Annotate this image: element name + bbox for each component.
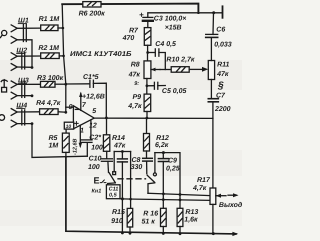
svg-text:R10 2,7к: R10 2,7к <box>166 56 195 63</box>
svg-text:47к: 47к <box>216 71 229 78</box>
switch glyph after E <box>100 180 107 183</box>
output right vertical wire <box>212 118 214 188</box>
switch Kn1 pole 1 <box>108 152 116 185</box>
svg-text:47к: 47к <box>128 71 141 78</box>
svg-text:330: 330 <box>131 164 143 171</box>
node dot lineB R13 <box>179 199 182 202</box>
svg-text:R2 1М: R2 1М <box>38 45 59 52</box>
svg-text:E: E <box>94 176 100 186</box>
svg-text:5: 5 <box>92 108 96 115</box>
resistor R14 <box>103 118 109 158</box>
pickup symbol <box>1 80 7 92</box>
resistor R12 <box>144 118 150 158</box>
pin 10 box <box>64 122 73 129</box>
pin 1 power arrow -12.6V <box>79 125 82 148</box>
resistor R16 <box>161 208 167 233</box>
potentiometer R8 <box>144 61 160 79</box>
capacitor C10 <box>101 159 112 173</box>
pin 9 stub wire <box>66 106 74 108</box>
mech link dashes <box>118 178 146 180</box>
svg-text:9: 9 <box>69 104 73 111</box>
node dot R8 bottom <box>146 84 149 87</box>
svg-text:С2*: С2* <box>89 134 101 141</box>
svg-text:R14: R14 <box>112 135 125 142</box>
resistor R10 <box>171 67 208 73</box>
wire R8 wiper junction to R10 <box>160 69 171 71</box>
bar wire above C-row right <box>155 153 180 209</box>
node dot bar2 C9 <box>162 151 165 154</box>
terminal bar top right <box>222 6 224 17</box>
svg-text:1,6к: 1,6к <box>184 216 198 223</box>
microphone symbol <box>0 30 6 37</box>
wire to C4 <box>148 52 155 54</box>
svg-text:R12: R12 <box>156 135 169 142</box>
wire line B to R17 <box>122 199 210 201</box>
svg-text:R7: R7 <box>129 28 139 35</box>
connector Sh2 <box>11 53 41 71</box>
resistor R7 <box>144 28 151 53</box>
capacitor C2 <box>81 140 92 156</box>
svg-text:2200: 2200 <box>214 106 231 113</box>
svg-text:Выход: Выход <box>219 201 242 209</box>
resistor R2 <box>41 53 64 59</box>
node dot lineA C9 <box>162 193 165 196</box>
resistor R9 <box>144 86 151 118</box>
node dot lineA riser <box>179 193 182 196</box>
svg-text:-12,6В: -12,6В <box>73 138 79 155</box>
svg-text:R4 4,7к: R4 4,7к <box>36 100 61 107</box>
node dot lineB R15 <box>129 198 132 201</box>
svg-text:С10: С10 <box>89 156 102 163</box>
svg-text:4,7к: 4,7к <box>127 103 142 110</box>
svg-text:470: 470 <box>122 35 135 42</box>
svg-text:С7: С7 <box>216 92 226 99</box>
svg-text:R6 200к: R6 200к <box>79 11 106 18</box>
connector Sh4 <box>11 109 39 127</box>
wire to C5 <box>147 85 154 87</box>
connector Sh3 <box>11 81 40 99</box>
svg-text:С9: С9 <box>168 157 177 164</box>
svg-text:47к: 47к <box>113 143 126 150</box>
capacitor C1 <box>90 80 106 118</box>
svg-text:С11: С11 <box>109 186 119 192</box>
svg-text:R11: R11 <box>217 61 229 68</box>
wire to C1 <box>66 83 90 85</box>
svg-text:910: 910 <box>111 218 123 225</box>
svg-text:Р9: Р9 <box>133 94 142 101</box>
top +12.6V rail wire <box>62 4 198 13</box>
svg-text:4,7к: 4,7к <box>192 185 207 192</box>
svg-text:100: 100 <box>91 145 103 152</box>
node dots on summing wire <box>62 27 65 30</box>
resistor R6 <box>83 2 101 7</box>
node dot Sh3 ground <box>31 94 34 97</box>
bar wire above C-row left <box>114 151 130 153</box>
potentiometer R17 <box>210 188 226 234</box>
node dot output R14 <box>105 117 108 120</box>
connector Sh1 <box>11 25 41 68</box>
svg-text:R8: R8 <box>131 62 140 69</box>
svg-text:Кн1: Кн1 <box>92 188 102 194</box>
resistor R15 <box>127 152 133 234</box>
C11 box <box>106 185 122 199</box>
node dot bar1 <box>121 150 124 153</box>
capacitor C5 <box>154 82 165 89</box>
svg-text:0,25: 0,25 <box>166 165 180 172</box>
resistor R13 <box>177 208 183 233</box>
svg-text:1: 1 <box>80 127 84 134</box>
svg-text:R17: R17 <box>197 177 211 184</box>
svg-text:0,033: 0,033 <box>214 41 232 48</box>
svg-text:+: + <box>139 11 144 20</box>
svg-text:R3 100к: R3 100к <box>37 75 64 82</box>
node dot Sh2 ground <box>31 66 34 69</box>
svg-text:С5 0,05: С5 0,05 <box>162 88 187 95</box>
svg-text:0,5: 0,5 <box>109 193 118 199</box>
wire line A to R17 <box>148 193 210 195</box>
capacitor (bar1 center) <box>118 152 128 199</box>
node dot rail R15 <box>129 232 132 235</box>
svg-text:100: 100 <box>88 164 100 171</box>
node dot C6 branch <box>212 11 215 14</box>
resistor R4 <box>40 109 66 115</box>
node dot rail R16 <box>162 232 165 235</box>
ground bus wire left <box>32 124 87 158</box>
wire R8 top lead <box>147 53 149 61</box>
node dot rail R13 <box>179 232 182 235</box>
svg-text:С4 0,5: С4 0,5 <box>155 41 176 48</box>
pin 12 wire <box>90 120 92 140</box>
capacitor C9 <box>158 153 168 209</box>
svg-text:§: § <box>217 81 224 92</box>
capacitor C3 (polarized) <box>143 17 153 27</box>
summing node vertical wire <box>62 4 66 112</box>
player symbol left edge <box>0 115 5 121</box>
op-amp U1 triangle <box>73 106 94 129</box>
node dot R7/R8/C4 <box>146 51 149 54</box>
node dot rail x122 <box>121 232 124 235</box>
svg-text:С3 100,0×: С3 100,0× <box>154 16 187 23</box>
capacitor C7 <box>208 99 218 119</box>
potentiometer R11 <box>208 38 214 98</box>
svg-text:R 16: R 16 <box>143 210 158 217</box>
svg-text:С6: С6 <box>216 27 225 34</box>
svg-text:С1*5: С1*5 <box>83 74 99 81</box>
svg-text:1М: 1М <box>49 142 59 149</box>
svg-text:ИМС1 К1УТ401Б: ИМС1 К1УТ401Б <box>70 51 132 58</box>
node dot C11/lineB <box>121 197 124 200</box>
svg-text:9:: 9: <box>134 81 139 87</box>
ground vertical wire to bottom rail <box>66 157 236 234</box>
svg-text:+12,6В: +12,6В <box>82 94 105 101</box>
resistor R1 <box>41 25 63 31</box>
wire R8 bottom lead <box>146 79 148 86</box>
node dot lineB R16 <box>162 198 165 201</box>
op-amp output wire pin 5 <box>94 117 213 119</box>
svg-text:R13: R13 <box>185 209 198 216</box>
pin 7 power arrow +12.6V <box>79 92 82 111</box>
switch Kn1 pole 2 <box>147 153 156 194</box>
node dot Sh4 ground <box>31 122 34 125</box>
output arrow Vyhod <box>228 193 239 197</box>
svg-text:6,2к: 6,2к <box>155 142 169 149</box>
svg-text:51 к: 51 к <box>142 218 156 225</box>
svg-text:R1 1М: R1 1М <box>39 16 60 23</box>
svg-text:×15В: ×15В <box>165 24 182 31</box>
node dot R17 bottom on rail <box>212 232 215 235</box>
bottom rail end arrow <box>232 232 238 236</box>
svg-text:R5: R5 <box>49 135 58 142</box>
svg-text:12: 12 <box>89 123 97 130</box>
capacitor C8 <box>143 158 153 174</box>
svg-text:10: 10 <box>66 124 72 130</box>
resistor R3 <box>41 81 66 87</box>
wire line y13 from C3 to terminal <box>148 13 222 17</box>
capacitor C6 <box>206 13 218 38</box>
node dot output R9 <box>146 117 149 120</box>
resistor R5 <box>62 129 69 157</box>
svg-text:R15: R15 <box>112 209 125 216</box>
capacitor C4 <box>155 49 165 70</box>
wire cap to rail <box>121 199 123 233</box>
